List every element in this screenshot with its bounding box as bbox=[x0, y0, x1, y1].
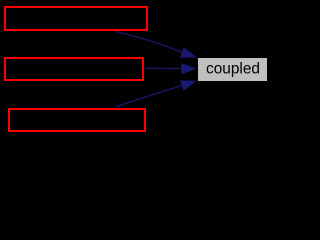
svg-text:coupled: coupled bbox=[206, 61, 260, 78]
arrowhead 1 bbox=[180, 47, 197, 58]
dependency graph canvas bbox=[0, 0, 275, 139]
edge box1 to coupled (wire) bbox=[116, 32, 182, 53]
node box2 (middle red box) bbox=[5, 58, 143, 80]
node box1 (top red box) bbox=[5, 7, 147, 30]
edge box2 to coupled (wire) bbox=[146, 67, 183, 69]
node coupled (grey box) bbox=[198, 58, 268, 82]
arrowhead 2 bbox=[181, 63, 197, 74]
edge box3 to coupled (wire) bbox=[116, 86, 182, 107]
arrowhead 3 bbox=[180, 80, 197, 91]
node box3 (bottom red box) bbox=[9, 109, 145, 131]
